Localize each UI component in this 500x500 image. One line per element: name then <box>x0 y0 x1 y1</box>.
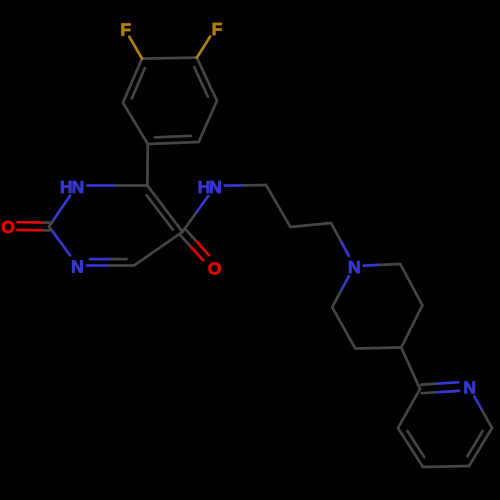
double bond benzene C6=C1 <box>148 142 199 144</box>
bond C3-F <box>129 37 142 59</box>
double bond C2=O <box>18 221 44 224</box>
bond piperidine-pyridine <box>401 348 420 390</box>
bond piperidine C4-C5 <box>355 348 401 349</box>
bond CH2-N piperidine <box>331 223 341 242</box>
double bond C5=C6 <box>147 186 182 232</box>
bond piperidine C5-C6 <box>332 307 355 348</box>
double bond pyridine C6=C5 <box>469 428 492 466</box>
svg-text:N: N <box>72 177 85 197</box>
svg-text:N: N <box>463 377 476 397</box>
double bond C=O amide <box>190 245 204 260</box>
svg-text:H: H <box>60 177 73 197</box>
bond pyridine C3-C2 <box>398 389 420 428</box>
bond benzene C1-C2 <box>123 103 148 144</box>
bond benzene C5-C6 <box>199 101 217 142</box>
svg-text:N: N <box>348 257 361 277</box>
bond benzene C3-C4 <box>142 58 197 59</box>
svg-text:F: F <box>212 19 223 39</box>
bond N1-C6 <box>88 184 117 187</box>
bond N1-C2 <box>52 196 70 222</box>
double bond pyridine C2=N <box>422 392 438 393</box>
svg-text:N: N <box>209 177 222 197</box>
bond CH2-CH2 b <box>290 223 331 227</box>
bond C4-C5 <box>134 232 183 266</box>
double bond benzene C4=C5 <box>197 58 217 101</box>
double bond N3=C4 <box>87 264 109 267</box>
bond CH2-CH2 <box>266 185 290 227</box>
svg-text:O: O <box>208 258 222 278</box>
bond piperidine C3-C4 <box>401 305 422 347</box>
bond C(O)-N amide <box>183 212 198 232</box>
svg-text:N: N <box>71 257 84 277</box>
bond C4-F <box>197 37 210 58</box>
bond piperidine N-C2 <box>364 264 380 267</box>
bond N-CH2 <box>225 184 244 187</box>
bond pyridine C5-C4 <box>423 466 469 467</box>
svg-text:O: O <box>1 217 15 237</box>
bond C2-N3 <box>49 227 52 232</box>
bond pyridine N-C6 <box>474 397 481 410</box>
bond aryl-C6 linker <box>146 144 149 186</box>
bond piperidine C6-N <box>332 289 342 307</box>
bond piperidine C2-C3 <box>400 264 422 305</box>
double bond pyridine C4=C3 <box>398 428 423 467</box>
double bond benzene C2=C3 <box>123 59 142 103</box>
svg-text:F: F <box>120 19 131 39</box>
